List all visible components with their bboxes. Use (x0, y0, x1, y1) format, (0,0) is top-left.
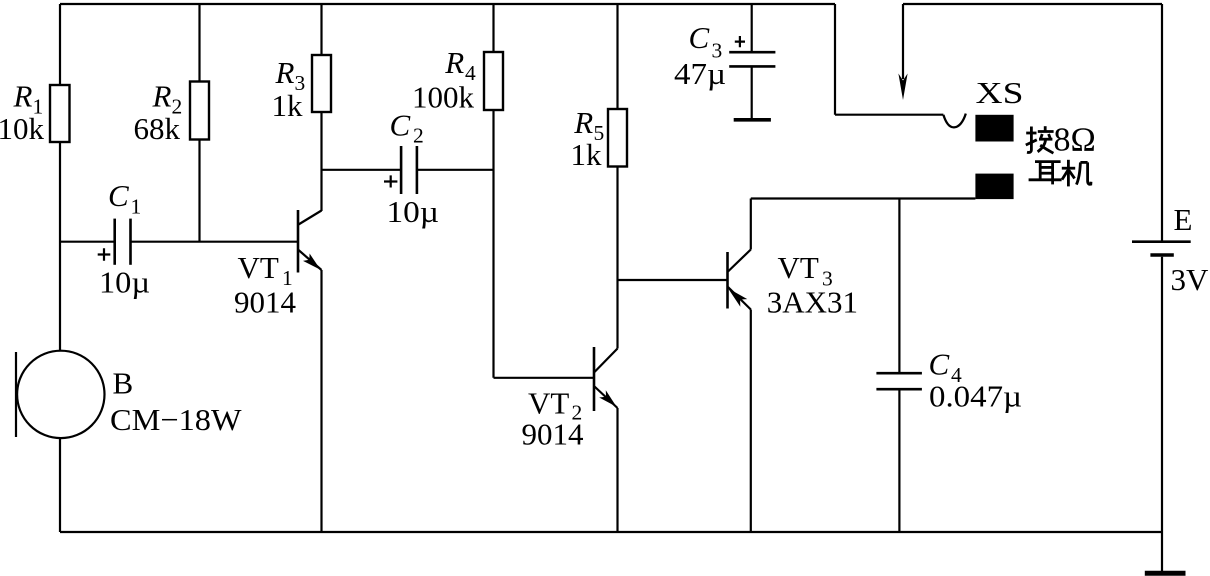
wire to VT2 base (494, 377, 594, 379)
plus sign of C2 (384, 175, 397, 187)
svg-text:VT: VT (528, 386, 569, 421)
C3 ground bar (734, 118, 771, 122)
transistor VT1 collector slant (299, 211, 322, 225)
svg-text:3V: 3V (1171, 262, 1210, 297)
svg-text:1k: 1k (571, 137, 603, 172)
svg-text:CM−18W: CM−18W (110, 402, 242, 437)
wire jack feed horizontal (835, 114, 943, 116)
transistor VT1 emitter slant (299, 250, 322, 270)
svg-text:100k: 100k (412, 80, 475, 115)
wire VT1 collector to R3 (320, 112, 322, 211)
wire R1 bottom to microphone (59, 142, 61, 351)
wire R2 top (198, 4, 200, 82)
svg-text:10k: 10k (0, 111, 45, 146)
plug insertion arrow line (902, 4, 904, 79)
wire R3 top (320, 4, 322, 55)
svg-text:1: 1 (131, 195, 142, 219)
svg-text:0.047µ: 0.047µ (929, 379, 1022, 414)
plug insertion arrowhead (898, 74, 907, 101)
wire R4 top (492, 4, 494, 52)
capacitor C3 plates (729, 51, 775, 54)
wire C3 bottom lead (751, 66, 753, 118)
resistor R5 (608, 109, 627, 167)
wire microphone to bottom rail (59, 438, 61, 532)
transistor VT2 base bar (593, 347, 596, 411)
jack spring contact arc (943, 114, 965, 128)
resistor R1 (50, 85, 70, 142)
wire top rail right segment (903, 3, 1162, 5)
plus sign of C3 (735, 36, 745, 47)
svg-text:VT: VT (778, 250, 819, 285)
svg-text:10µ: 10µ (387, 194, 440, 229)
battery E positive plate (1132, 240, 1191, 243)
microphone flat plate (15, 352, 17, 437)
svg-text:E: E (1174, 202, 1193, 237)
svg-text:R: R (13, 79, 33, 114)
svg-text:VT: VT (238, 250, 279, 285)
battery bottom terminal bar (1145, 571, 1186, 576)
svg-text:1k: 1k (272, 88, 304, 123)
svg-text:47µ: 47µ (674, 56, 726, 91)
wire battery bottom lead (1161, 257, 1163, 571)
transistor VT3 emitter arrow (PNP, points to base) (728, 288, 747, 306)
wire C2 right lead to R4 line (417, 169, 494, 171)
wire C1 right lead to VT1 base (131, 241, 298, 243)
wire VT3 base from R5/VT2 node (618, 279, 727, 281)
svg-text:C: C (929, 347, 950, 382)
connector XS bottom black contact (975, 174, 1013, 200)
wire C4 top lead (898, 199, 900, 373)
capacitor C4 plates (876, 372, 922, 375)
svg-text:2: 2 (413, 124, 424, 148)
wire C4 bottom lead (898, 389, 900, 532)
connector XS top black contact (975, 115, 1013, 142)
hanzi JIE (connect) (1026, 126, 1054, 153)
transistor VT2 collector slant (595, 349, 618, 373)
capacitor C1 plates (113, 219, 116, 265)
svg-text:8Ω: 8Ω (1054, 122, 1096, 159)
wire R5 top (616, 4, 618, 109)
hanzi ER (ear) (1029, 162, 1062, 185)
resistor R4 (484, 52, 503, 110)
svg-text:XS: XS (976, 75, 1024, 110)
transistor VT3 base bar (726, 252, 729, 309)
wire top rail left segment (60, 3, 835, 5)
wire VT3 emitter to bottom rail (750, 310, 752, 533)
hanzi JI (machine) (1062, 160, 1091, 187)
resistor R2 (190, 82, 209, 140)
plus sign of C1 (98, 248, 111, 260)
wire battery top lead (1161, 4, 1163, 241)
transistor VT2 emitter slant (595, 387, 618, 409)
wire VT2 collector to R5 node (616, 167, 618, 349)
transistor VT3 collector slant (728, 250, 751, 272)
svg-text:3AX31: 3AX31 (767, 285, 858, 320)
resistor R3 (312, 55, 331, 112)
wire left vertical upper (node A to R1) (59, 4, 61, 85)
battery E negative plate (1150, 253, 1173, 257)
svg-text:C: C (689, 20, 710, 55)
capacitor C2 plates (400, 146, 403, 194)
wire R4 bottom through C2 node down (492, 110, 494, 378)
microphone B circle (17, 351, 104, 438)
wire C1 left lead (60, 241, 115, 243)
svg-text:10µ: 10µ (99, 265, 150, 300)
transistor VT1 base bar (297, 210, 300, 273)
svg-text:68k: 68k (134, 111, 181, 146)
svg-text:R: R (573, 105, 593, 140)
svg-text:9014: 9014 (234, 285, 297, 320)
wire C2 left lead from VT1 collector line (322, 169, 402, 171)
wire output node to XS block (751, 197, 976, 199)
svg-text:B: B (113, 366, 134, 401)
transistor VT3 emitter slant (728, 287, 751, 310)
transistor VT1 emitter arrow (303, 254, 321, 270)
wire C3 top lead (751, 4, 753, 52)
wire bottom rail (60, 531, 1162, 533)
wire R2 bottom to C1 node (198, 140, 200, 242)
wire VT1 emitter to bottom rail (320, 270, 322, 532)
svg-text:C: C (390, 108, 411, 143)
transistor VT2 emitter arrow (599, 390, 616, 407)
svg-text:R: R (444, 45, 464, 80)
svg-text:9014: 9014 (522, 417, 585, 452)
svg-text:R: R (152, 79, 172, 114)
svg-text:R: R (275, 55, 295, 90)
wire VT3 collector up to output node (750, 199, 752, 250)
wire jack feed vertical (834, 4, 836, 115)
svg-text:C: C (108, 178, 129, 213)
wire VT2 emitter to bottom rail (616, 408, 618, 532)
